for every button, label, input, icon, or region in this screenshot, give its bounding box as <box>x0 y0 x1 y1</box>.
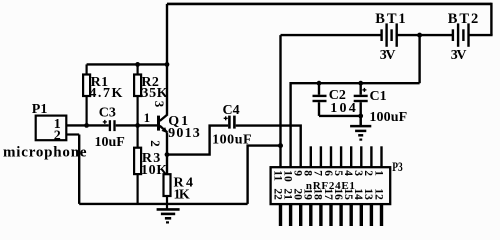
svg-text:4.7K: 4.7K <box>89 86 122 101</box>
wire: supply drop / Q1 collector riser <box>166 4 168 115</box>
svg-text:9013: 9013 <box>168 126 200 141</box>
capacitor C4 <box>224 116 235 129</box>
node: C1 top <box>358 81 363 86</box>
svg-text:BT1: BT1 <box>375 11 405 27</box>
ground (preamp) <box>157 209 180 222</box>
resistor R1 4.7K <box>83 64 90 125</box>
svg-text:3: 3 <box>152 101 167 108</box>
svg-text:10K: 10K <box>141 163 168 178</box>
wire: ground rail <box>79 203 247 205</box>
node: C2 top <box>317 81 322 86</box>
svg-text:microphone: microphone <box>3 144 87 160</box>
wire: battery tap drop <box>418 35 420 83</box>
IC P3 top pin stubs <box>311 146 382 167</box>
node: base/R2/R3 junction <box>135 123 140 128</box>
svg-text:10uF: 10uF <box>95 135 125 150</box>
wire: C3 to Q1 base <box>116 124 158 126</box>
svg-text:2: 2 <box>54 128 61 143</box>
node: C1 bottom <box>358 114 363 119</box>
labels P3 top pin numbers <box>271 170 384 182</box>
svg-text:1: 1 <box>372 170 384 176</box>
svg-text:3V: 3V <box>451 48 467 63</box>
svg-text:35K: 35K <box>141 86 167 101</box>
node: emitter/C4 junction <box>165 152 170 157</box>
transistor Q1 <box>159 114 168 133</box>
wire: BT1-BT2 series link <box>398 34 453 36</box>
node: pin11/ground-return tee <box>278 143 283 148</box>
svg-text:2: 2 <box>148 140 163 147</box>
svg-text:100uF: 100uF <box>212 132 252 147</box>
capacitor C2 <box>313 83 327 116</box>
wire: BT2 positive link <box>469 34 492 36</box>
wire: C4 to P3 pin 9 <box>236 126 301 168</box>
capacitor C1 <box>354 83 368 116</box>
wire: BT1 negative to pin11 riser <box>281 34 381 36</box>
connector P1 <box>36 116 79 141</box>
svg-text:BT2: BT2 <box>448 11 479 27</box>
wire: P1 pin2 drop <box>78 135 80 204</box>
resistor R3 10K <box>134 125 141 203</box>
wire: emitter to C4 <box>167 126 228 155</box>
resistor R4 1K <box>164 174 171 209</box>
wire: C2-C1 bottom link <box>319 115 361 117</box>
IC P3 nRF24E1 body <box>271 167 391 204</box>
svg-text:P1: P1 <box>32 102 48 117</box>
wire: ground return to rail <box>248 146 281 204</box>
wire: V+ top bus <box>167 3 491 6</box>
resistor R2 35K <box>134 64 141 125</box>
node: rail/R2 <box>135 62 140 67</box>
wire: P3 pin 10 riser and C2/C1 top rail <box>291 83 420 167</box>
IC P3 bottom pin stubs <box>281 204 382 226</box>
svg-text:1K: 1K <box>174 188 190 203</box>
capacitor C3 <box>103 120 115 131</box>
svg-text:12: 12 <box>372 188 384 200</box>
wire: preamp supply rail <box>87 63 167 65</box>
svg-text:P3: P3 <box>392 160 403 174</box>
battery BT1 <box>382 23 397 46</box>
node: mic/R1 junction <box>84 123 89 128</box>
labels P3 bottom pin numbers <box>271 188 384 200</box>
ground (C1) <box>350 116 371 140</box>
node: battery tap junction <box>417 33 422 38</box>
wire: emitter drop <box>166 132 168 174</box>
svg-text:104: 104 <box>330 101 356 116</box>
svg-text:100uF: 100uF <box>369 110 407 125</box>
svg-text:1: 1 <box>144 110 151 125</box>
wire: P3 pin 11 riser <box>279 35 281 167</box>
wire: right edge drop to BT2 <box>490 3 492 35</box>
wire: mic signal P1 pin1 to C3 <box>66 124 109 126</box>
battery BT2 <box>453 23 469 46</box>
svg-text:C3: C3 <box>99 106 116 121</box>
node: rail/collector <box>165 62 170 67</box>
svg-text:C4: C4 <box>223 103 240 118</box>
svg-text:C1: C1 <box>370 89 387 104</box>
svg-text:3V: 3V <box>380 48 396 63</box>
